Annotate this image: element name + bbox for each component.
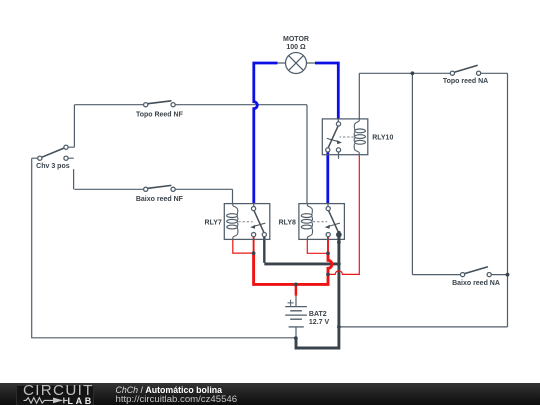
svg-text:RLY10: RLY10 [372, 135, 393, 142]
svg-text:RLY7: RLY7 [205, 219, 222, 226]
svg-text:Baixo reed NA: Baixo reed NA [452, 280, 500, 287]
svg-text:BAT2: BAT2 [309, 311, 327, 318]
svg-text:Baixo reed NF: Baixo reed NF [136, 196, 184, 203]
svg-text:Topo reed NA: Topo reed NA [443, 78, 488, 85]
svg-text:100 Ω: 100 Ω [286, 44, 306, 51]
svg-text:Topo Reed NF: Topo Reed NF [136, 111, 184, 118]
svg-text:MOTOR: MOTOR [283, 36, 309, 43]
svg-text:RLY8: RLY8 [279, 219, 296, 226]
svg-text:12.7 V: 12.7 V [309, 319, 330, 326]
svg-text:Chv 3 pos: Chv 3 pos [36, 163, 70, 170]
